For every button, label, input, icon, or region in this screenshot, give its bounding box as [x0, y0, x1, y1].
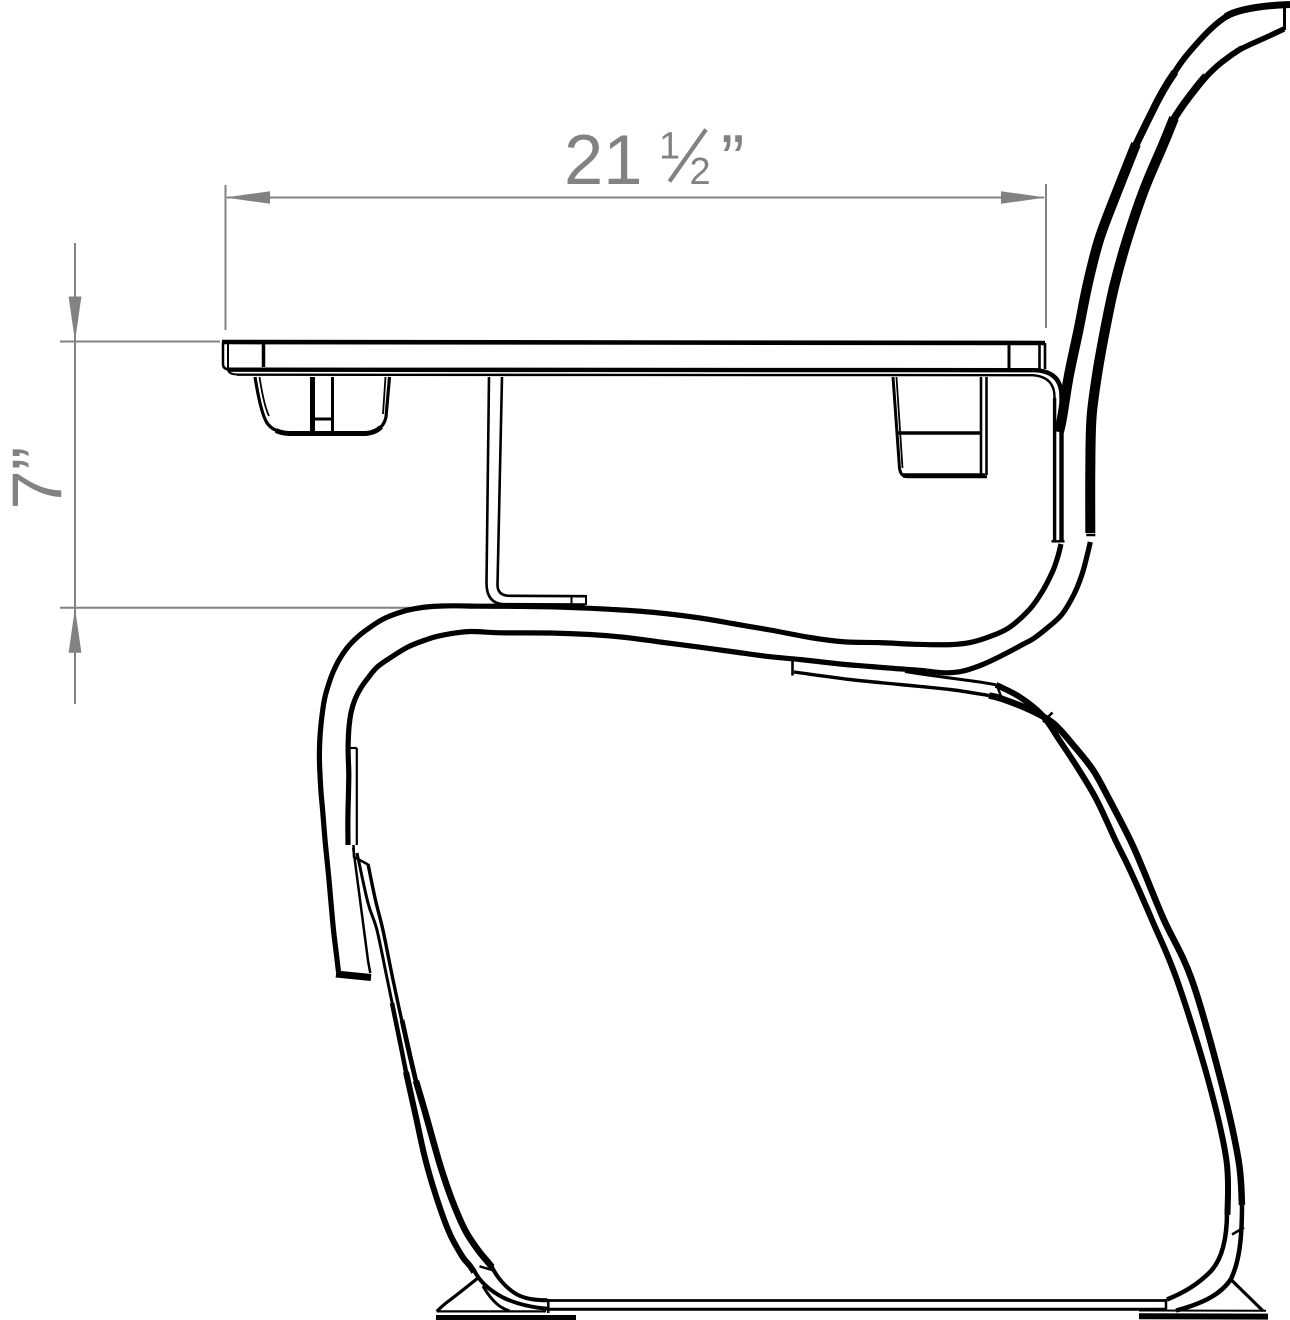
- svg-text:”: ”: [721, 120, 744, 199]
- svg-text:1: 1: [659, 126, 680, 168]
- svg-text:7”: 7”: [0, 447, 76, 510]
- svg-text:2: 2: [690, 151, 711, 193]
- svg-text:21: 21: [564, 120, 642, 199]
